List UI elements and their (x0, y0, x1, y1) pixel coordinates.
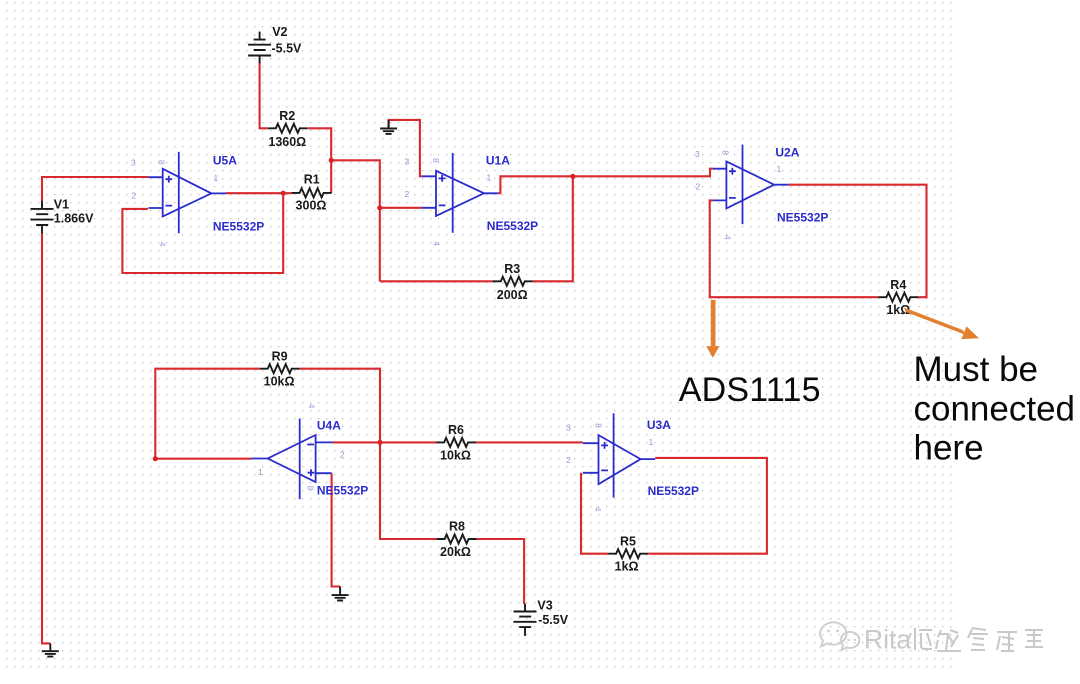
svg-text:NE5532P: NE5532P (648, 484, 699, 498)
svg-text:U4A: U4A (317, 418, 341, 432)
svg-text:1: 1 (214, 173, 219, 183)
node junction dot U1A inverting branch (377, 205, 382, 210)
resistor R3 200ohm (493, 262, 533, 302)
svg-text:1: 1 (487, 173, 492, 183)
svg-text:10kΩ: 10kΩ (264, 375, 295, 389)
svg-text:1.866V: 1.866V (54, 211, 94, 225)
wire V1 bottom to ground (42, 234, 50, 644)
svg-text:1kΩ: 1kΩ (615, 560, 639, 574)
svg-text:V1: V1 (54, 198, 69, 212)
wire R9 right down to R8 left (300, 369, 437, 539)
wire V1 to U5A non-inverting input (42, 177, 148, 202)
wire R9 left down to U4A output (155, 369, 259, 459)
svg-text:8: 8 (306, 486, 316, 491)
svg-text:10kΩ: 10kΩ (440, 448, 471, 462)
wire R4 left to U2A inverting input (710, 200, 879, 297)
wire U1A output to U2A non-inverting input (498, 169, 712, 194)
wire R2 right down to R1 right (308, 128, 331, 193)
wire V2 to R2 left (260, 63, 268, 129)
svg-text:NE5532P: NE5532P (317, 483, 368, 497)
svg-text:3: 3 (566, 423, 571, 433)
resistor R1 300ohm (292, 173, 332, 213)
svg-text:2: 2 (132, 190, 137, 200)
wire U3A inverting input down to R5 left (581, 473, 608, 554)
svg-text:connected: connected (914, 389, 1076, 428)
wire R3 right up to U1A output node (533, 176, 573, 281)
resistor R5 1kohm (608, 534, 648, 573)
watermark pseudo hanzi glyphs (907, 628, 1043, 651)
ground bottom left (42, 643, 59, 656)
svg-text:4: 4 (593, 507, 603, 512)
resistor R2 1360ohm (268, 109, 308, 149)
op-amp U1A NE5532P (405, 153, 539, 246)
svg-text:2: 2 (566, 455, 571, 465)
svg-text:V3: V3 (537, 598, 552, 612)
svg-text:8: 8 (594, 423, 604, 428)
voltage source V1 1.866V (31, 198, 95, 234)
svg-text:NE5532P: NE5532P (213, 220, 264, 234)
svg-text:Must be: Must be (914, 350, 1039, 389)
svg-text:U3A: U3A (647, 418, 671, 432)
svg-text:2: 2 (405, 189, 410, 199)
node junction dot U1A output (570, 174, 575, 179)
svg-text:4: 4 (307, 404, 317, 409)
svg-text:ADS1115: ADS1115 (679, 371, 821, 409)
svg-text:R6: R6 (448, 423, 464, 437)
svg-text:NE5532P: NE5532P (777, 210, 828, 224)
node C junction dot U4A inverting branch (377, 440, 382, 445)
svg-text:8: 8 (431, 158, 441, 163)
svg-text:3: 3 (405, 157, 410, 167)
svg-text:200Ω: 200Ω (497, 288, 528, 302)
wire U5A feedback loop output to inverting input (122, 193, 283, 273)
resistor R9 10kohm (260, 349, 300, 388)
node junction dot U4A output corner (153, 456, 158, 461)
svg-text:1: 1 (777, 164, 782, 174)
wire to U1A inverting input (380, 207, 422, 209)
op-amp U4A NE5532P mirrored (251, 404, 368, 500)
svg-text:4: 4 (158, 242, 168, 247)
svg-text:300Ω: 300Ω (296, 199, 327, 213)
svg-text:4: 4 (723, 235, 733, 240)
voltage source V2 -5.5V (248, 25, 302, 63)
wire U4A non-inverting input to ground (332, 473, 341, 586)
voltage source V3 -5.5V (514, 598, 569, 636)
svg-text:R8: R8 (449, 520, 465, 534)
watermark wechat icon (820, 622, 859, 650)
svg-text:8: 8 (157, 160, 167, 165)
svg-text:1: 1 (649, 437, 654, 447)
svg-text:4: 4 (432, 241, 442, 246)
svg-text:here: here (914, 429, 984, 468)
wire U2A output down to R4 right (788, 185, 926, 298)
resistor R8 20kohm (437, 520, 477, 559)
wire ground to U1A non-inverting input (389, 120, 422, 176)
svg-text:3: 3 (131, 158, 136, 168)
orange arrow to Must be connected here (904, 308, 979, 340)
node A junction dot at U5A output (281, 191, 286, 196)
resistor R6 10kohm (436, 423, 476, 462)
svg-text:2: 2 (340, 450, 345, 460)
svg-text:NE5532P: NE5532P (487, 219, 538, 233)
wire U5A output to node A (226, 192, 292, 194)
resistor R4 1kohm (878, 278, 918, 317)
svg-text:8: 8 (721, 150, 731, 155)
op-amp U3A NE5532P (566, 413, 699, 511)
svg-text:-5.5V: -5.5V (538, 613, 569, 627)
op-amp U2A NE5532P (695, 145, 828, 240)
svg-text:Rita: Rita (864, 625, 911, 655)
wire R3 bottom left (380, 280, 494, 282)
svg-text:V2: V2 (272, 25, 287, 39)
wire R8 right to V3 (477, 539, 524, 604)
svg-text:R5: R5 (620, 534, 636, 548)
svg-text:20kΩ: 20kΩ (440, 545, 471, 559)
svg-text:-5.5V: -5.5V (272, 41, 303, 55)
svg-text:3: 3 (695, 149, 700, 159)
op-amp U5A NE5532P (131, 152, 264, 247)
wire node B to U1A branch (331, 160, 380, 281)
wire node C to R6 left (380, 441, 436, 443)
svg-text:2: 2 (696, 182, 701, 192)
wire R6 right to U3A non-inverting input (476, 441, 583, 443)
wire R5 right up to U3A output (648, 458, 767, 554)
svg-text:R2: R2 (279, 109, 295, 123)
orange arrow to ADS1115 (706, 300, 719, 358)
svg-text:U2A: U2A (775, 145, 799, 159)
svg-text:1360Ω: 1360Ω (268, 135, 306, 149)
node B junction dot R1-R2 (329, 158, 334, 163)
svg-text:1: 1 (258, 467, 263, 477)
svg-text:U1A: U1A (486, 153, 510, 167)
svg-text:R1: R1 (304, 173, 320, 187)
ground under U4A non-inverting input (332, 587, 349, 601)
svg-text:R9: R9 (272, 349, 288, 363)
ground near U1A input (380, 120, 397, 134)
wire U4A inverting input to node C (332, 441, 380, 443)
svg-text:U5A: U5A (213, 154, 237, 168)
svg-text:R4: R4 (890, 278, 906, 292)
svg-text:R3: R3 (504, 262, 520, 276)
